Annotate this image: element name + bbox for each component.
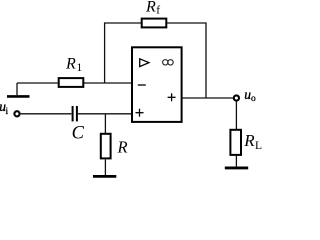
svg-text:i: i [6, 107, 9, 117]
resistor R1 [59, 56, 84, 87]
svg-text:C: C [72, 123, 85, 143]
wire R to ground [104, 160, 106, 176]
ground (top-left) [7, 83, 30, 96]
svg-text:R: R [65, 56, 76, 73]
op-amp U1 [132, 47, 182, 122]
terminal u_i [0, 99, 20, 117]
svg-text:1: 1 [77, 62, 83, 74]
wire u_o node to RL [235, 101, 237, 129]
wire op-amp output to u_o [182, 97, 233, 99]
wire feedback left vertical [104, 23, 106, 83]
resistor RL [230, 130, 262, 155]
wire feedback top-left horizontal [104, 22, 142, 24]
wire R1 to inverting input [84, 82, 132, 84]
svg-text:f: f [156, 5, 160, 17]
wire capacitor to non-inverting input [78, 113, 132, 115]
svg-text:R: R [243, 131, 255, 150]
svg-text:o: o [251, 94, 256, 104]
resistor Rf [142, 0, 167, 27]
wire ground to R1 [17, 82, 58, 84]
wire feedback top-right horizontal [167, 22, 206, 24]
svg-text:R: R [117, 138, 128, 157]
svg-text:L: L [255, 140, 262, 152]
wire u_i to capacitor [21, 113, 72, 115]
wire feedback right vertical to output node [205, 22, 207, 98]
wire RL to ground [235, 156, 237, 167]
ground (below R) [93, 175, 116, 178]
wire node to R [104, 114, 106, 133]
resistor R [101, 134, 128, 159]
terminal u_o [234, 87, 256, 104]
svg-text:R: R [145, 0, 156, 16]
ground (below RL) [225, 166, 248, 169]
capacitor C [72, 106, 85, 143]
